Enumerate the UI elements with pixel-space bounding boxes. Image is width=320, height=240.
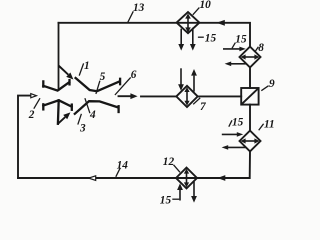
- svg-text:15: 15: [235, 34, 247, 46]
- svg-text:6: 6: [131, 69, 137, 81]
- svg-text:13: 13: [133, 2, 145, 14]
- svg-text:8: 8: [258, 42, 264, 54]
- svg-text:14: 14: [117, 160, 129, 172]
- svg-text:4: 4: [89, 109, 96, 121]
- svg-text:10: 10: [200, 0, 212, 11]
- svg-text:15: 15: [232, 117, 244, 129]
- svg-text:5: 5: [100, 71, 106, 83]
- svg-text:3: 3: [79, 122, 86, 134]
- svg-text:2: 2: [28, 109, 35, 121]
- svg-text:11: 11: [264, 118, 275, 130]
- svg-text:15: 15: [160, 195, 172, 205]
- svg-text:1: 1: [84, 60, 90, 72]
- svg-text:7: 7: [200, 101, 207, 113]
- svg-text:9: 9: [269, 78, 275, 90]
- svg-text:15: 15: [205, 32, 217, 44]
- svg-text:12: 12: [163, 156, 175, 168]
